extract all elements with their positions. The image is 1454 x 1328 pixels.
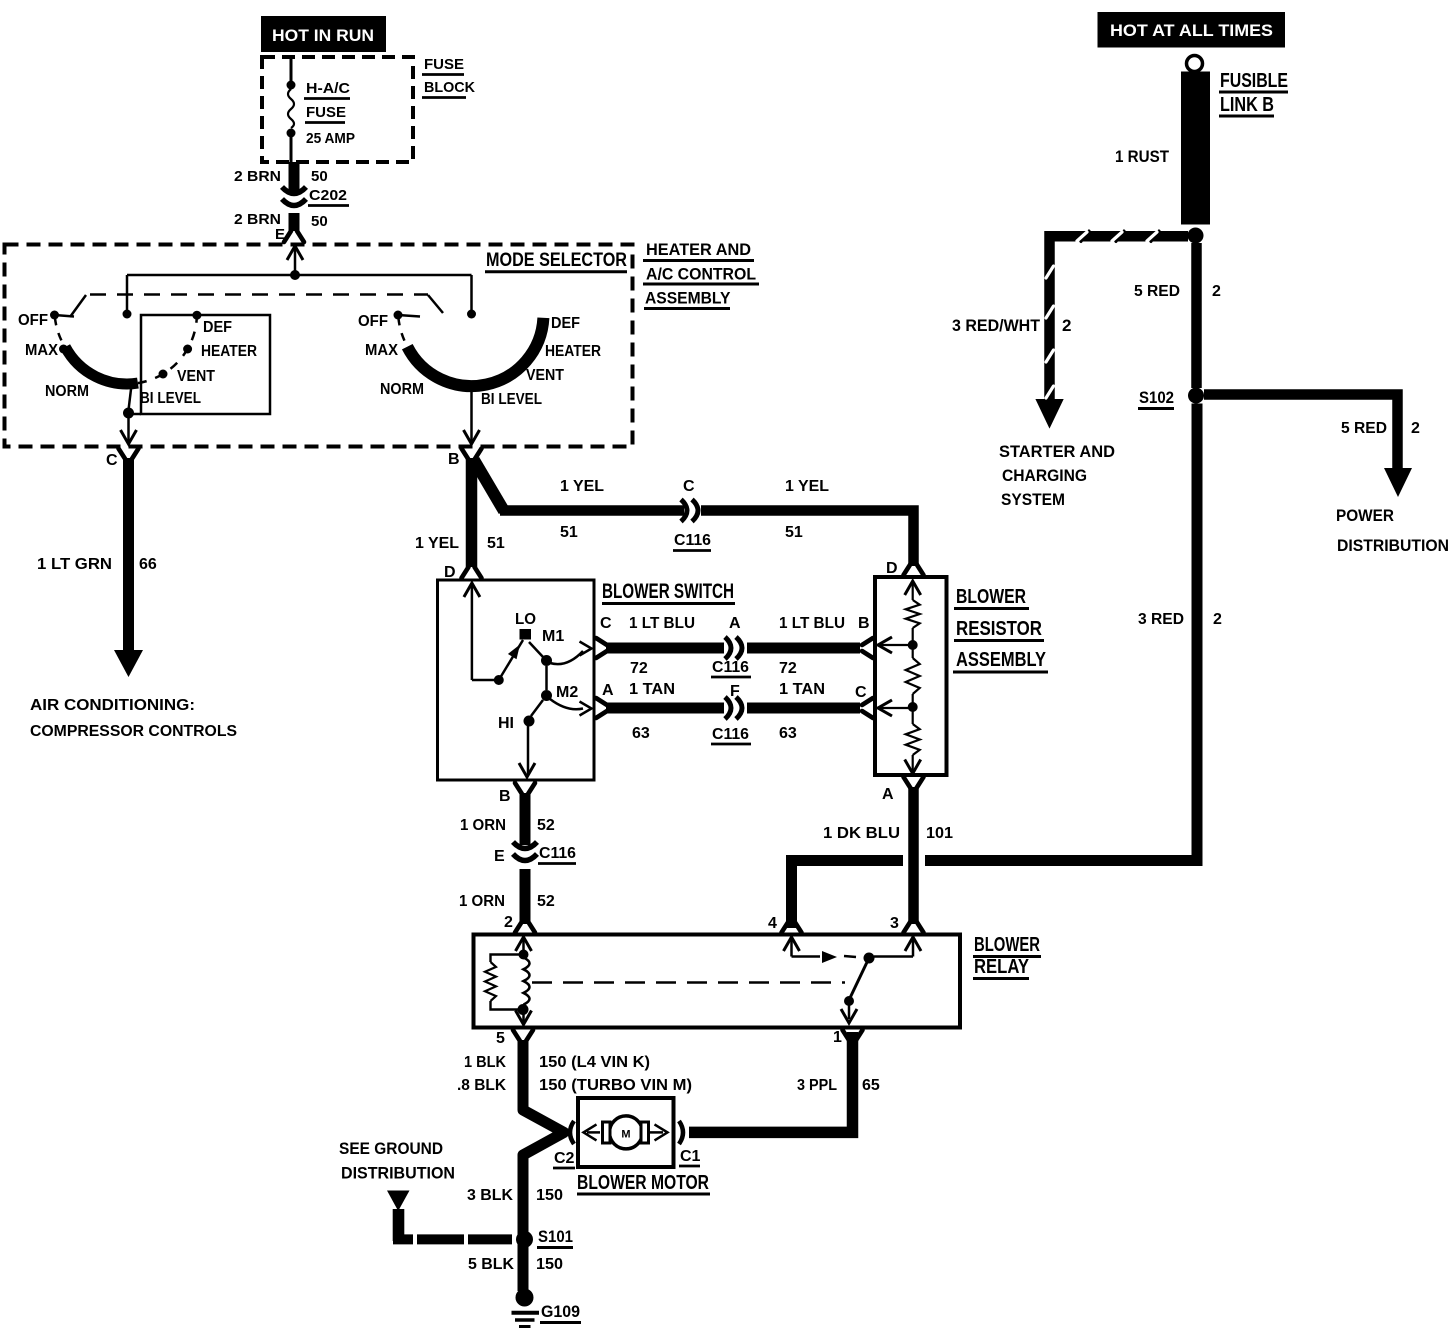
svg-text:5: 5 [496, 1030, 505, 1047]
svg-text:51: 51 [487, 535, 505, 552]
svg-text:BLOWER: BLOWER [974, 934, 1040, 956]
svg-text:3 PPL: 3 PPL [797, 1077, 837, 1094]
svg-text:HEATER: HEATER [545, 343, 601, 360]
svg-text:FUSE: FUSE [424, 56, 464, 73]
svg-text:2: 2 [1212, 283, 1221, 300]
svg-text:E: E [494, 848, 505, 865]
svg-text:C116: C116 [674, 532, 711, 549]
svg-text:HI: HI [498, 715, 514, 732]
svg-text:2: 2 [504, 914, 513, 931]
svg-text:1 YEL: 1 YEL [560, 478, 604, 495]
svg-text:1 TAN: 1 TAN [779, 681, 825, 698]
svg-text:BLOCK: BLOCK [424, 79, 475, 96]
svg-text:1 LT BLU: 1 LT BLU [779, 615, 845, 632]
svg-text:NORM: NORM [380, 381, 424, 398]
svg-text:CHARGING: CHARGING [1002, 466, 1087, 485]
svg-text:3: 3 [890, 915, 899, 932]
svg-text:72: 72 [630, 660, 648, 677]
svg-text:1 RUST: 1 RUST [1115, 147, 1170, 166]
svg-text:1 YEL: 1 YEL [415, 535, 459, 552]
svg-text:VENT: VENT [177, 368, 215, 385]
svg-text:1 ORN: 1 ORN [459, 893, 505, 910]
svg-text:2: 2 [1411, 420, 1420, 437]
svg-text:ASSEMBLY: ASSEMBLY [956, 649, 1047, 671]
svg-text:MODE SELECTOR: MODE SELECTOR [486, 250, 627, 271]
svg-text:HEATER AND: HEATER AND [646, 240, 751, 259]
svg-text:OFF: OFF [358, 313, 388, 330]
svg-text:5 BLK: 5 BLK [468, 1256, 514, 1273]
svg-text:D: D [444, 564, 456, 581]
svg-text:63: 63 [632, 725, 650, 742]
svg-text:A/C CONTROL: A/C CONTROL [646, 265, 756, 284]
svg-text:51: 51 [785, 524, 803, 541]
svg-text:65: 65 [862, 1077, 880, 1094]
svg-text:OFF: OFF [18, 312, 48, 329]
svg-text:BLOWER SWITCH: BLOWER SWITCH [602, 580, 734, 603]
svg-text:63: 63 [779, 725, 797, 742]
svg-text:5 RED: 5 RED [1341, 420, 1387, 437]
svg-text:M: M [621, 1129, 630, 1141]
svg-text:BLOWER MOTOR: BLOWER MOTOR [577, 1172, 709, 1194]
svg-text:5 RED: 5 RED [1134, 283, 1180, 300]
svg-text:LO: LO [515, 611, 536, 628]
svg-text:C116: C116 [539, 845, 576, 862]
svg-text:DEF: DEF [203, 319, 232, 336]
svg-text:1 LT BLU: 1 LT BLU [629, 615, 695, 632]
svg-text:2 BRN: 2 BRN [234, 168, 281, 185]
svg-text:50: 50 [311, 168, 328, 185]
svg-text:C116: C116 [712, 726, 749, 743]
svg-text:C: C [683, 478, 695, 495]
svg-text:MAX: MAX [365, 342, 398, 359]
svg-text:52: 52 [537, 893, 555, 910]
svg-text:25 AMP: 25 AMP [306, 130, 355, 147]
svg-text:SEE GROUND: SEE GROUND [339, 1139, 443, 1158]
svg-text:2: 2 [1062, 316, 1071, 335]
svg-text:ASSEMBLY: ASSEMBLY [645, 289, 731, 308]
svg-text:BI LEVEL: BI LEVEL [481, 391, 542, 408]
svg-text:M1: M1 [542, 628, 564, 645]
svg-text:66: 66 [139, 556, 157, 573]
svg-text:C: C [855, 684, 867, 701]
svg-text:2 BRN: 2 BRN [234, 211, 281, 228]
svg-text:150 (L4 VIN K): 150 (L4 VIN K) [539, 1054, 650, 1071]
svg-text:H-A/C: H-A/C [306, 80, 350, 97]
svg-text:.8 BLK: .8 BLK [457, 1077, 506, 1094]
svg-text:C202: C202 [309, 187, 347, 204]
svg-text:DEF: DEF [551, 315, 580, 332]
svg-text:S101: S101 [538, 1227, 573, 1246]
svg-text:F: F [730, 683, 740, 700]
svg-text:FUSE: FUSE [306, 104, 346, 121]
svg-text:M2: M2 [556, 684, 578, 701]
svg-text:AIR CONDITIONING:: AIR CONDITIONING: [30, 697, 195, 714]
svg-text:1 BLK: 1 BLK [464, 1054, 506, 1071]
svg-text:3 RED: 3 RED [1138, 611, 1184, 628]
svg-text:BLOWER: BLOWER [956, 586, 1026, 608]
svg-text:101: 101 [926, 825, 953, 842]
svg-text:VENT: VENT [526, 367, 564, 384]
svg-text:HEATER: HEATER [201, 343, 257, 360]
svg-text:150: 150 [536, 1256, 563, 1273]
svg-text:STARTER AND: STARTER AND [999, 442, 1115, 461]
svg-text:D: D [886, 560, 898, 577]
svg-text:FUSIBLE: FUSIBLE [1220, 70, 1288, 92]
svg-text:NORM: NORM [45, 383, 89, 400]
svg-text:HOT AT ALL TIMES: HOT AT ALL TIMES [1110, 21, 1273, 40]
svg-text:DISTRIBUTION: DISTRIBUTION [1337, 536, 1449, 555]
svg-text:COMPRESSOR CONTROLS: COMPRESSOR CONTROLS [30, 723, 237, 740]
svg-text:C1: C1 [680, 1148, 701, 1165]
svg-text:C116: C116 [712, 659, 749, 676]
svg-text:1: 1 [833, 1029, 842, 1046]
svg-text:S102: S102 [1139, 388, 1174, 407]
svg-text:1 TAN: 1 TAN [629, 681, 675, 698]
svg-text:RELAY: RELAY [974, 956, 1030, 978]
svg-text:50: 50 [311, 213, 328, 230]
svg-text:150: 150 [536, 1187, 563, 1204]
svg-text:3 BLK: 3 BLK [467, 1187, 513, 1204]
svg-text:1 LT GRN: 1 LT GRN [37, 556, 112, 573]
svg-text:52: 52 [537, 817, 555, 834]
svg-text:B: B [499, 788, 511, 805]
svg-text:B: B [448, 451, 460, 468]
svg-text:1 DK BLU: 1 DK BLU [823, 825, 900, 842]
svg-text:1 ORN: 1 ORN [460, 817, 506, 834]
svg-text:51: 51 [560, 524, 578, 541]
svg-text:DISTRIBUTION: DISTRIBUTION [341, 1164, 455, 1183]
svg-text:SYSTEM: SYSTEM [1001, 490, 1065, 509]
svg-text:A: A [729, 615, 741, 632]
svg-text:2: 2 [1213, 611, 1222, 628]
svg-text:POWER: POWER [1336, 506, 1394, 525]
svg-text:1 YEL: 1 YEL [785, 478, 829, 495]
svg-text:A: A [882, 786, 894, 803]
svg-text:4: 4 [768, 915, 777, 932]
svg-text:C: C [600, 615, 612, 632]
svg-text:LINK B: LINK B [1220, 94, 1274, 116]
svg-text:A: A [602, 682, 614, 699]
svg-text:B: B [858, 615, 870, 632]
svg-text:G109: G109 [541, 1302, 580, 1321]
svg-text:RESISTOR: RESISTOR [956, 618, 1042, 640]
svg-text:MAX: MAX [25, 342, 58, 359]
svg-text:C2: C2 [554, 1150, 575, 1167]
svg-text:BI LEVEL: BI LEVEL [140, 390, 201, 407]
svg-text:HOT IN RUN: HOT IN RUN [272, 26, 374, 45]
svg-text:72: 72 [779, 660, 797, 677]
svg-text:E: E [275, 226, 285, 243]
svg-text:3 RED/WHT: 3 RED/WHT [952, 316, 1041, 335]
svg-text:C: C [106, 452, 118, 469]
svg-text:150 (TURBO VIN M): 150 (TURBO VIN M) [539, 1077, 692, 1094]
